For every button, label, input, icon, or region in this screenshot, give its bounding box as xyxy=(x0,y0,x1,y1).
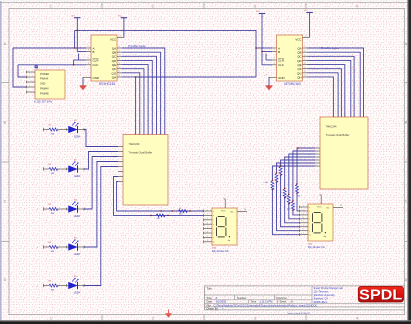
svg-text:GND: GND xyxy=(93,76,101,80)
wire U1 QH xyxy=(122,77,136,135)
svg-text:B: B xyxy=(278,50,280,54)
svg-text:dp: dp xyxy=(309,234,311,236)
wire U1 QC xyxy=(122,56,156,134)
wire clock net to U1 CLK xyxy=(18,64,86,66)
svg-text:wbum_board.SCHDOC: wbum_board.SCHDOC xyxy=(288,312,311,315)
svg-text:13: 13 xyxy=(118,75,120,77)
svg-text:3: 3 xyxy=(119,46,120,48)
title block frame xyxy=(204,285,404,287)
svg-text:Sheet: Sheet xyxy=(280,300,287,304)
window chrome top edge xyxy=(0,0,411,1)
svg-text:Drawn By:: Drawn By: xyxy=(207,307,219,311)
buffer U4 left pin stubs xyxy=(315,147,320,149)
LED D5 xyxy=(69,278,79,290)
wire U3 pin8 to display DS1 segment a xyxy=(117,182,204,212)
svg-text:VCC: VCC xyxy=(317,206,322,208)
svg-text:Size: Size xyxy=(207,296,213,300)
svg-text:4: 4 xyxy=(356,316,358,320)
svg-text:6: 6 xyxy=(304,59,305,61)
no-ERC marker on J2 wire xyxy=(35,65,38,68)
wire resistor to DS2 pin xyxy=(277,182,300,231)
wire U1 QF xyxy=(122,69,144,135)
wire resistor to DS2 pin xyxy=(272,189,299,234)
svg-text:Tri-state Octal Buffer: Tri-state Octal Buffer xyxy=(326,133,350,137)
junction dots near U1 inputs xyxy=(74,47,75,48)
wire U4 pin6 to display DS2 xyxy=(277,163,316,173)
resistor R2 330 xyxy=(43,167,45,171)
svg-text:3: 3 xyxy=(254,4,256,8)
svg-text:Title: Title xyxy=(207,287,213,291)
svg-text:74HC244: 74HC244 xyxy=(129,142,141,146)
ground symbol U1 xyxy=(82,77,84,85)
resistor R8 330 vertical xyxy=(271,181,274,190)
wire U1 QA xyxy=(122,48,165,135)
svg-text:Revision: Revision xyxy=(277,296,288,300)
wire VCC elbow to U1 A xyxy=(74,30,76,48)
resistor R1 330 xyxy=(43,128,45,132)
svg-text:R6: R6 xyxy=(179,208,181,210)
connector J2 xyxy=(35,70,65,99)
LED D1 xyxy=(69,122,79,134)
svg-text:GND: GND xyxy=(278,76,286,80)
svg-text:Dpy Amber-CA: Dpy Amber-CA xyxy=(308,246,325,249)
svg-text:Stanford University: Stanford University xyxy=(314,294,336,297)
svg-text:3: 3 xyxy=(304,46,305,48)
wire left loop vertical xyxy=(13,48,27,87)
window chrome right edge xyxy=(408,0,411,324)
wire U4 pin4 to display DS2 xyxy=(285,157,315,189)
svg-text:PWM4X: PWM4X xyxy=(40,88,49,91)
wire U4 pin5 to display DS2 xyxy=(281,160,315,166)
wire resistor to DS2 pin xyxy=(293,210,300,215)
resistor R14 330 vertical xyxy=(296,184,299,193)
svg-text:2: 2 xyxy=(274,50,275,52)
svg-text:dp: dp xyxy=(324,236,326,238)
svg-text:10: 10 xyxy=(118,63,120,65)
svg-text:6/2/2005: 6/2/2005 xyxy=(216,300,227,304)
svg-text:1: 1 xyxy=(88,46,89,48)
svg-text:13: 13 xyxy=(304,75,306,77)
wire U2 QA xyxy=(308,48,364,117)
window chrome bottom edge xyxy=(0,321,411,324)
svg-text:Dpy Amber-CA: Dpy Amber-CA xyxy=(212,250,229,253)
svg-text:Date: Date xyxy=(207,300,213,304)
svg-text:LED4: LED4 xyxy=(74,175,81,178)
resistor R6 330 inline xyxy=(178,210,187,213)
resistor R11 330 vertical xyxy=(283,189,286,198)
ground arrow symbol bottom center xyxy=(168,310,170,314)
LED D4 xyxy=(69,239,79,251)
wire U2 QE xyxy=(308,65,345,117)
LED D3 xyxy=(69,201,79,213)
shift register U2 M74HC164 xyxy=(277,35,303,81)
resistor R7 330 inline xyxy=(156,214,165,217)
svg-text:LED4: LED4 xyxy=(74,291,81,294)
wire U1 QE xyxy=(122,65,148,135)
svg-text:4: 4 xyxy=(119,50,120,52)
svg-text:9: 9 xyxy=(274,58,275,60)
wire VCC rail top to U2 serial input xyxy=(75,30,256,77)
wire LED D4 to U3 pin4 xyxy=(84,162,118,248)
svg-text:POWER: POWER xyxy=(40,73,49,76)
svg-text:12: 12 xyxy=(118,71,120,73)
svg-text:Tri-state Octal Buffer: Tri-state Octal Buffer xyxy=(129,151,153,155)
wire U2 QD xyxy=(308,60,351,117)
resistor R10 330 vertical xyxy=(279,166,282,175)
SPDL logo xyxy=(358,286,403,302)
wire U2 QH xyxy=(308,77,334,117)
svg-text:12: 12 xyxy=(304,71,306,73)
svg-text:4: 4 xyxy=(304,50,305,52)
window chrome left edge xyxy=(0,0,2,324)
svg-text:101 Thurston: 101 Thurston xyxy=(314,291,329,294)
border zone ticks left xyxy=(2,82,9,84)
svg-text:8: 8 xyxy=(88,63,89,65)
junction dots on DS1 wires xyxy=(161,210,162,211)
resistor R5 330 xyxy=(43,284,45,288)
wire LED D5 to U3 pin5 xyxy=(84,167,118,286)
buffer U3 left pin stubs xyxy=(118,146,123,148)
U1 pin wires B CLR xyxy=(77,51,86,53)
junction dots near U2 inputs xyxy=(255,47,256,48)
svg-text:2: 2 xyxy=(152,4,154,8)
display DS2 Dpy Amber-CA xyxy=(308,204,333,241)
svg-text:of: of xyxy=(291,300,293,304)
svg-text:11: 11 xyxy=(304,67,306,69)
wire U4 pin2 to display DS2 xyxy=(293,151,315,201)
wire resistor to DS2 pin xyxy=(289,203,300,219)
wire clock loop to J2 xyxy=(18,65,27,77)
border zone ticks right xyxy=(405,82,408,84)
svg-text:To buffer inputs: To buffer inputs xyxy=(128,44,146,48)
wire resistor to DS2 pin xyxy=(281,175,300,227)
svg-text:9: 9 xyxy=(88,58,89,60)
svg-text:1: 1 xyxy=(50,316,52,320)
svg-text:QH: QH xyxy=(297,75,302,79)
wire LED D1 to U3 pin1 xyxy=(84,130,118,147)
wire serial data to U1 pin A xyxy=(13,47,86,49)
svg-text:CLK: CLK xyxy=(93,63,99,67)
svg-text:VCC: VCC xyxy=(221,210,226,212)
svg-text:dp: dp xyxy=(213,242,215,244)
svg-text:PWM4E: PWM4E xyxy=(40,92,49,95)
wire U2 QF xyxy=(308,69,342,117)
svg-text:6: 6 xyxy=(119,59,120,61)
svg-text:LED4: LED4 xyxy=(74,253,81,256)
svg-text:10: 10 xyxy=(304,63,306,65)
resistor R13 330 vertical xyxy=(291,201,294,210)
wire U1 QH to U2 pin A xyxy=(136,76,256,78)
svg-text:CLR: CLR xyxy=(93,58,100,62)
svg-text:PWA4X: PWA4X xyxy=(40,78,49,81)
svg-text:GND: GND xyxy=(40,83,46,86)
svg-text:QH: QH xyxy=(112,75,117,79)
svg-text:5: 5 xyxy=(119,54,120,56)
svg-text:Time: Time xyxy=(251,300,257,304)
svg-text:CLR: CLR xyxy=(278,58,285,62)
svg-text:LED4: LED4 xyxy=(74,135,81,138)
wire U1 QG xyxy=(122,73,140,135)
resistor R3 330 xyxy=(43,207,45,211)
svg-text:A: A xyxy=(216,296,218,300)
resistor R4 330 xyxy=(43,245,45,249)
svg-text:SPDL: SPDL xyxy=(359,286,402,303)
wire U4 pin1 to display DS2 xyxy=(297,148,315,184)
svg-text:1: 1 xyxy=(274,46,275,48)
svg-text:Number: Number xyxy=(237,296,247,300)
wire U1 QB xyxy=(122,52,161,134)
wire U2 QC xyxy=(308,56,355,117)
svg-text:K-120 JST 5 Pin: K-120 JST 5 Pin xyxy=(34,100,53,103)
svg-text:74HC244: 74HC244 xyxy=(326,125,338,129)
svg-text:3: 3 xyxy=(254,316,256,320)
svg-text:94305-4021: 94305-4021 xyxy=(314,301,328,304)
ground symbol U2 xyxy=(268,77,270,85)
svg-text:B: B xyxy=(93,50,95,54)
wire U2 QG xyxy=(308,73,339,117)
svg-text:C:\Temp\AddressTE.M.DOC\Schema: C:\Temp\AddressTE.M.DOC\Schematic4\Docum… xyxy=(214,303,318,307)
svg-text:dp: dp xyxy=(228,240,230,242)
svg-text:1:11:11 PM: 1:11:11 PM xyxy=(260,300,273,304)
svg-text:VCC: VCC xyxy=(110,38,117,42)
shift register U1 M74HC164 xyxy=(91,35,117,81)
border zone ticks top xyxy=(101,3,103,9)
wire LED D2 to U3 pin2 xyxy=(84,152,118,170)
power VCC symbol for U1 VCC pin xyxy=(121,17,127,19)
svg-text:4: 4 xyxy=(356,4,358,8)
wire U1 QD xyxy=(122,60,152,134)
svg-text:Stanford, CA: Stanford, CA xyxy=(314,298,329,301)
wire U3 pin7 to display DS1 segment b xyxy=(114,177,204,216)
power VCC symbol left of U1 xyxy=(74,17,80,19)
svg-text:M74HC164: M74HC164 xyxy=(99,82,115,86)
svg-text:2: 2 xyxy=(152,316,154,320)
svg-text:1: 1 xyxy=(50,4,52,8)
resistor R12 330 vertical xyxy=(287,195,290,204)
buffer U3 74HC244 xyxy=(123,135,168,206)
wire resistor to DS2 pin xyxy=(285,197,300,223)
border zone ticks bottom xyxy=(101,315,103,321)
svg-text:5: 5 xyxy=(304,54,305,56)
LED D2 xyxy=(69,161,79,173)
svg-text:8: 8 xyxy=(274,63,275,65)
buffer U4 74HC244 xyxy=(320,117,368,189)
junction U1 QH xyxy=(135,76,136,77)
svg-text:2: 2 xyxy=(88,50,89,52)
wire resistor to DS2 pin xyxy=(297,193,300,211)
power VCC symbol left of U2 xyxy=(259,13,265,15)
svg-text:VCC: VCC xyxy=(295,38,302,42)
wire LED D3 to U3 pin3 xyxy=(84,157,118,210)
wire U4 pin3 to display DS2 xyxy=(289,154,315,195)
svg-text:M74HC164: M74HC164 xyxy=(285,82,301,86)
svg-text:CLK: CLK xyxy=(278,63,284,67)
svg-text:LED4: LED4 xyxy=(74,215,81,218)
wire U2 QB xyxy=(308,52,361,117)
svg-text:Smart Product Design Lab: Smart Product Design Lab xyxy=(314,287,344,290)
resistor R9 330 vertical xyxy=(275,173,278,182)
wire U4 pin7 to display DS2 xyxy=(272,166,315,181)
U2 pin wires B CLR xyxy=(262,51,272,53)
svg-text:14: 14 xyxy=(305,36,307,38)
svg-text:14: 14 xyxy=(119,36,121,38)
display DS1 Dpy Amber-CA xyxy=(212,208,237,245)
power VCC symbol for U2 VCC pin xyxy=(306,12,312,14)
svg-text:11: 11 xyxy=(118,67,120,69)
